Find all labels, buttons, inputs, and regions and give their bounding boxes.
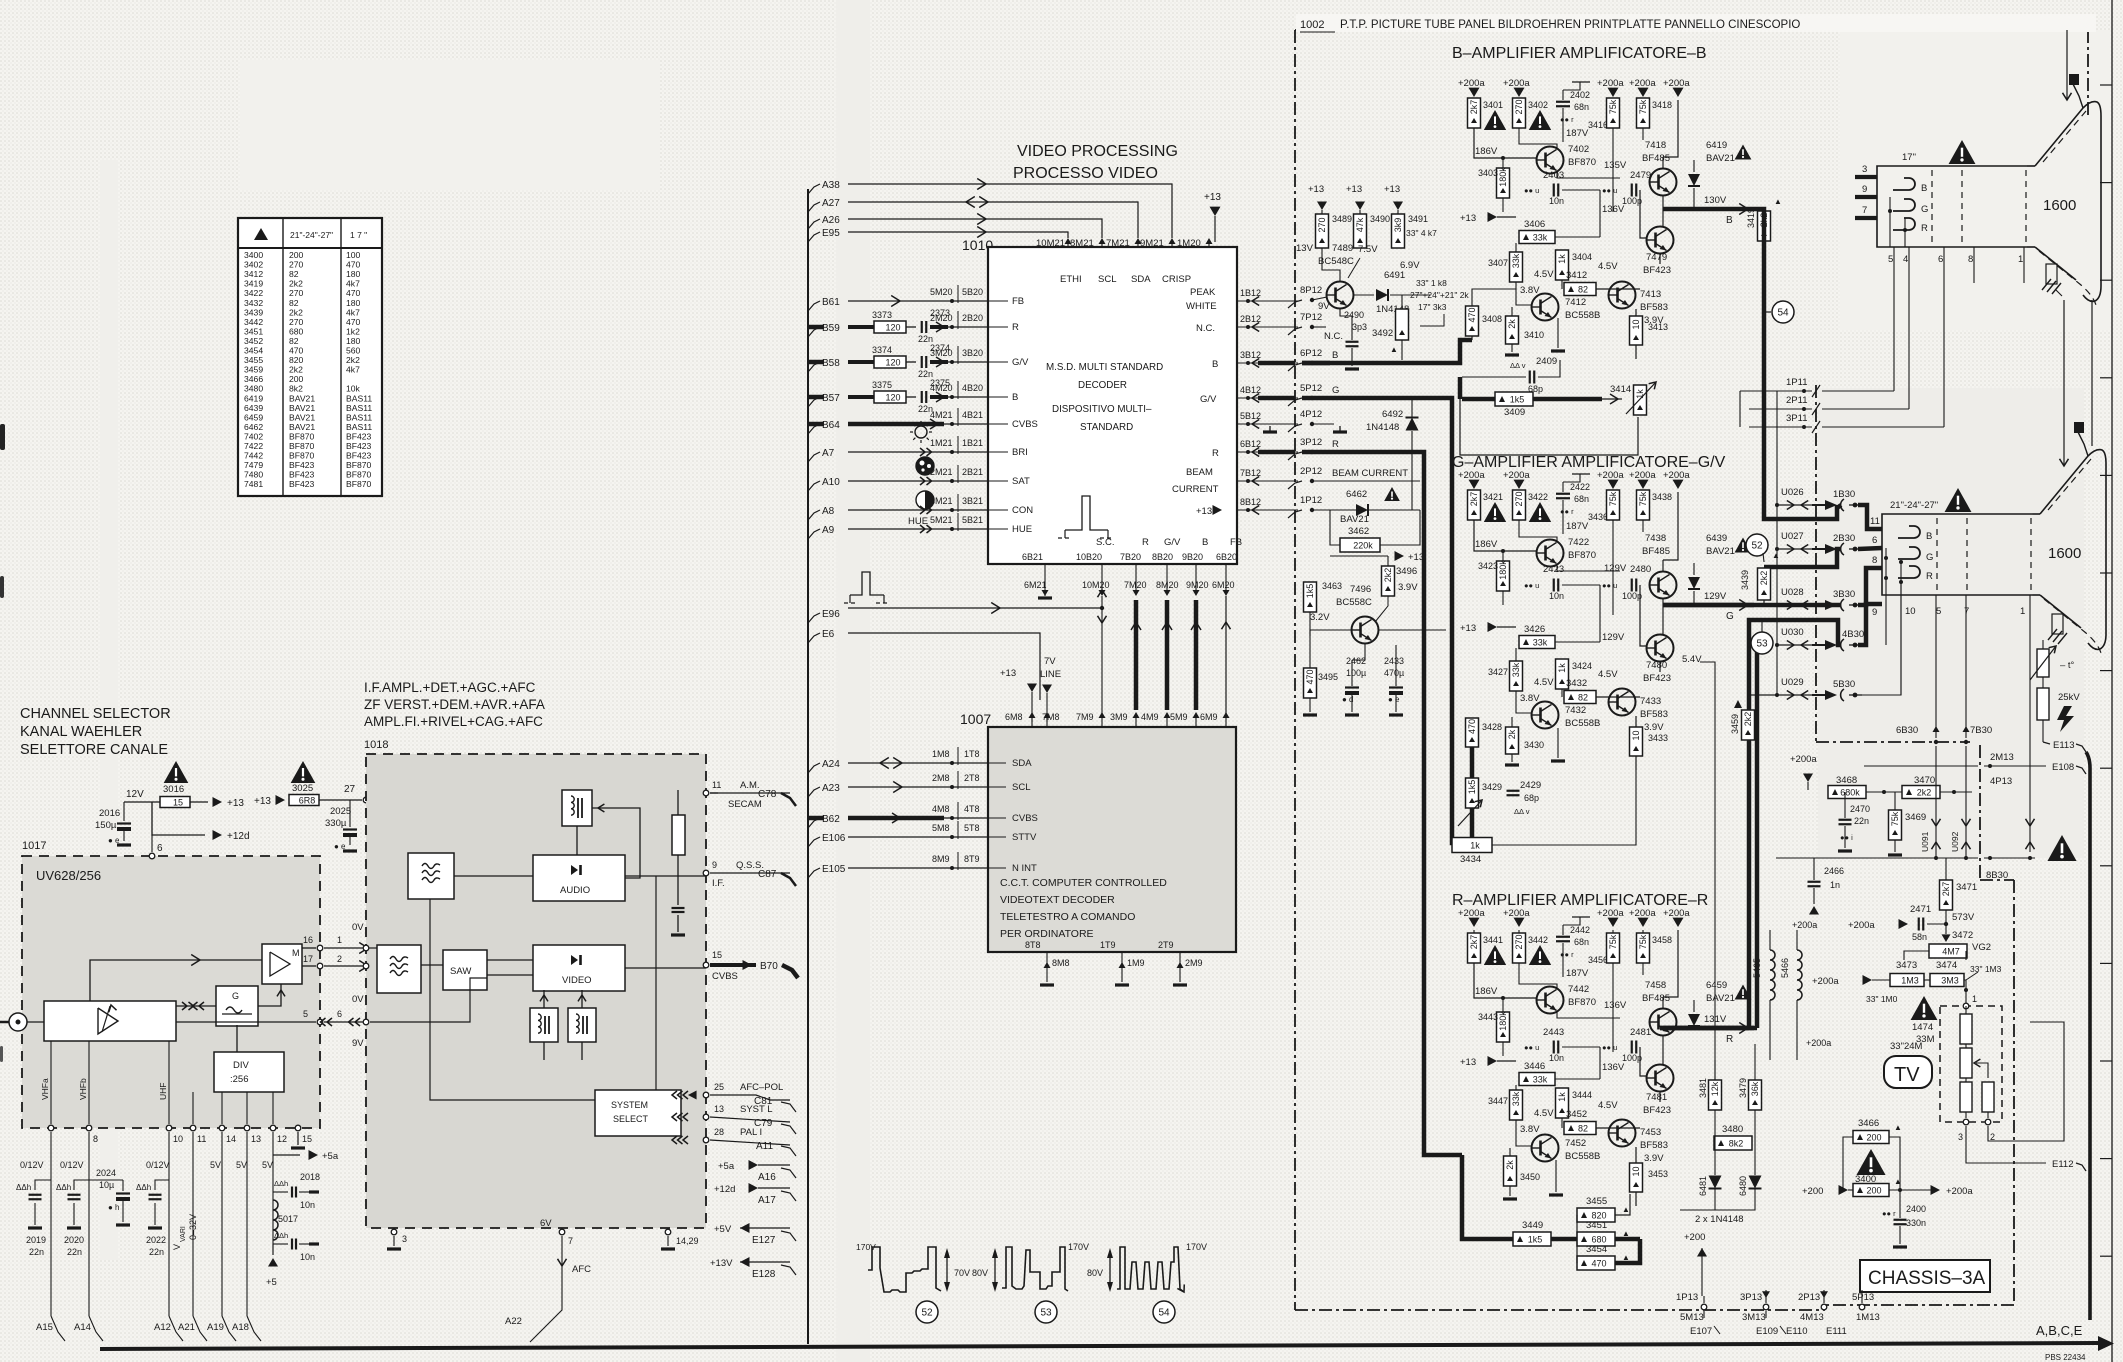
svg-text:LINE: LINE [1040, 669, 1061, 680]
stub A26 [808, 219, 820, 229]
svg-text:3k9: 3k9 [1393, 218, 1403, 233]
svg-text:BF870: BF870 [346, 460, 372, 470]
svg-text:▲: ▲ [1894, 1177, 1902, 1186]
svg-text:470: 470 [1591, 1258, 1606, 1268]
tube neck [1877, 166, 2027, 247]
R output to 4B30 vertical [1660, 1026, 1757, 1031]
tuner block [44, 1001, 176, 1041]
svg-text:HUE: HUE [1012, 524, 1032, 535]
B-amp q2-q3 wires [1662, 196, 1664, 227]
thick 3439 to 2B30 [1764, 549, 1841, 567]
svg-text:7412: 7412 [1565, 297, 1586, 308]
capacitor 2020 22n [74, 1180, 89, 1190]
svg-text:100p: 100p [1622, 1053, 1642, 1063]
svg-text:80V: 80V [1087, 1268, 1103, 1278]
thick bus G input down [1302, 398, 1462, 843]
svg-text:3451: 3451 [1586, 1220, 1607, 1231]
svg-text:7432: 7432 [1565, 705, 1586, 716]
waveform 54 level arrows [1109, 1253, 1111, 1287]
svg-text:G/V: G/V [1164, 537, 1181, 548]
svg-text:3454: 3454 [244, 346, 263, 356]
svg-text:SAT: SAT [1012, 476, 1030, 487]
svg-text:6M21: 6M21 [1024, 580, 1047, 590]
stub B64 [808, 424, 820, 434]
svg-text:13V: 13V [1296, 243, 1314, 254]
svg-text:7480: 7480 [244, 470, 263, 480]
svg-text:HUE: HUE [908, 516, 928, 527]
svg-text:BAV21: BAV21 [1706, 153, 1735, 164]
svg-text:+200: +200 [1684, 1232, 1705, 1243]
svg-text:3459: 3459 [1730, 714, 1740, 734]
svg-text:BF423: BF423 [289, 479, 315, 489]
svg-text:1007: 1007 [960, 711, 991, 727]
svg-text:1T8: 1T8 [964, 749, 980, 759]
svg-text:1: 1 [2018, 254, 2023, 265]
svg-text:3: 3 [402, 1234, 407, 1244]
svg-text:3423: 3423 [1478, 561, 1498, 571]
svg-text:2k7: 2k7 [1941, 882, 1951, 897]
warning triangle 3422 [1529, 502, 1551, 522]
capacitor 2402 68n [1562, 90, 1564, 100]
stub E95 [808, 232, 820, 242]
svg-text:BC558B: BC558B [1565, 1151, 1600, 1162]
svg-text:A15: A15 [36, 1322, 53, 1333]
svg-text:G: G [1332, 385, 1339, 396]
svg-text:V: V [172, 1244, 182, 1250]
wire audio out to pin 9 [625, 875, 706, 877]
svg-text:4M8: 4M8 [932, 804, 950, 814]
warning triangle 3400 [1856, 1149, 1885, 1175]
svg-text:3442: 3442 [1528, 935, 1548, 945]
svg-text:27"+24"+21" 2k: 27"+24"+21" 2k [1410, 290, 1469, 300]
transistor 7479 BF423 [1647, 227, 1674, 254]
svg-text:BF423: BF423 [346, 431, 372, 441]
svg-text:10n: 10n [1549, 591, 1564, 601]
tube panel inner dashdot [1815, 385, 1817, 742]
svg-text:3P12: 3P12 [1300, 437, 1322, 448]
svg-text:A23: A23 [822, 783, 840, 794]
svg-text:A8: A8 [822, 506, 835, 517]
svg-text:5: 5 [1888, 254, 1893, 265]
svg-text:2479: 2479 [1630, 170, 1651, 181]
svg-text:330µ: 330µ [325, 818, 347, 829]
svg-text:4.5V: 4.5V [1534, 1108, 1554, 1119]
svg-text:200: 200 [1866, 1132, 1881, 1142]
svg-text:75k: 75k [1638, 491, 1648, 506]
svg-text:2019: 2019 [26, 1235, 46, 1245]
resistor 75k a [1612, 490, 1614, 492]
svg-text:4B21: 4B21 [962, 410, 983, 420]
svg-text:5017: 5017 [278, 1214, 298, 1224]
wire 573V to 3472 [1945, 924, 1947, 934]
svg-text:+200a: +200a [1503, 908, 1530, 919]
svg-text:2480: 2480 [1630, 564, 1651, 575]
svg-text:ΔΔh: ΔΔh [136, 1183, 151, 1192]
warning triangle output G-amp [1735, 538, 1752, 553]
svg-text:3373: 3373 [872, 310, 892, 320]
svg-text:270: 270 [1317, 217, 1327, 232]
capacitor 2422 68n [1562, 482, 1564, 492]
svg-text:●● r: ●● r [1560, 507, 1574, 516]
resistor 3450 2k [1504, 1156, 1517, 1186]
131V R label wire [1680, 1044, 1715, 1080]
E112 wire [1966, 1126, 2046, 1163]
svg-text:3403: 3403 [1478, 168, 1498, 178]
svg-text:SDA: SDA [1012, 758, 1032, 769]
resistor 75k b [1642, 490, 1644, 492]
svg-text:2466: 2466 [1824, 866, 1844, 876]
svg-text:187V: 187V [1566, 521, 1589, 532]
+200a arrow right [1889, 1189, 1932, 1191]
svg-text:E108: E108 [2052, 762, 2074, 773]
1018 right pin 13 SYST L C79 [703, 1114, 709, 1120]
transistor 7418 BF485 [1650, 169, 1677, 196]
resistor 3434 1k [1452, 838, 1492, 853]
svg-text:G–AMPLIFIER AMPLIFICATORE–G/V: G–AMPLIFIER AMPLIFICATORE–G/V [1452, 454, 1726, 471]
svg-text:ΔΔ v: ΔΔ v [1514, 807, 1530, 816]
transistor 7480 BF423 [1647, 635, 1674, 662]
svg-text:3452: 3452 [244, 336, 263, 346]
thick bus B bottom loop [1533, 397, 1602, 402]
focus resistor 3 [1960, 1082, 1972, 1112]
resistor 3441 2k7 [1473, 930, 1475, 933]
svg-text:C78: C78 [758, 789, 777, 800]
svg-text:CHANNEL SELECTOR: CHANNEL SELECTOR [20, 706, 171, 722]
svg-text:0/12V: 0/12V [146, 1160, 170, 1170]
wire A38 to CRISP [848, 184, 1172, 238]
svg-text:2k2: 2k2 [289, 307, 303, 317]
svg-text:186V: 186V [1475, 146, 1498, 157]
svg-text:1018: 1018 [364, 739, 388, 751]
+200a below 2466 [1809, 906, 1819, 915]
svg-text:9B20: 9B20 [1182, 552, 1203, 562]
svg-text:●● u: ●● u [1524, 581, 1539, 590]
resistor 3447 33k vert [1510, 1090, 1523, 1120]
stub A9 [808, 529, 820, 539]
svg-text:VHFb: VHFb [78, 1078, 88, 1100]
warning triangle output R-amp [1735, 985, 1752, 1000]
svg-text:3451: 3451 [244, 326, 263, 336]
svg-text:10: 10 [173, 1134, 183, 1144]
transistor 7412 BC558B [1532, 294, 1559, 321]
svg-text:22n: 22n [918, 404, 933, 414]
svg-text:E109: E109 [1756, 1326, 1778, 1337]
svg-text:3496: 3496 [1396, 566, 1417, 577]
svg-text:3025: 3025 [292, 783, 313, 794]
svg-text:3430: 3430 [1524, 740, 1544, 750]
svg-text:180: 180 [346, 336, 361, 346]
svg-text:3.9V: 3.9V [1398, 582, 1418, 593]
svg-text:4B20: 4B20 [962, 383, 983, 393]
transistor 7481 BF423 [1647, 1065, 1674, 1092]
svg-text:8T8: 8T8 [1025, 940, 1041, 950]
svg-text:A18: A18 [232, 1322, 249, 1333]
svg-text:3375: 3375 [872, 380, 892, 390]
svg-text:1B30: 1B30 [1833, 489, 1855, 500]
svg-text:A21: A21 [178, 1322, 195, 1333]
svg-text:7433: 7433 [1640, 696, 1661, 707]
resistor 3427 33k vert [1510, 661, 1523, 691]
svg-text:+200a: +200a [1629, 470, 1656, 481]
svg-text:3470: 3470 [1914, 775, 1935, 786]
svg-text:2k: 2k [1507, 319, 1517, 329]
svg-text:5B21: 5B21 [962, 515, 983, 525]
svg-text:8B20: 8B20 [1152, 552, 1173, 562]
svg-text:BAV21: BAV21 [1706, 546, 1735, 557]
svg-text:1k: 1k [1557, 663, 1567, 673]
svg-text:8: 8 [93, 1134, 98, 1144]
svg-text:3016: 3016 [163, 784, 184, 795]
svg-text:A16: A16 [758, 1172, 776, 1183]
svg-text:A12: A12 [154, 1322, 171, 1333]
svg-text:3P11: 3P11 [1786, 413, 1807, 424]
svg-text:7489: 7489 [1332, 243, 1353, 254]
svg-text:25kV: 25kV [2058, 692, 2080, 703]
svg-text:A27: A27 [822, 198, 840, 209]
capacitor 2429 68p [1507, 790, 1520, 792]
svg-text:1T9: 1T9 [1100, 940, 1116, 950]
DIV 256 block [214, 1052, 284, 1092]
svg-text:11: 11 [1870, 516, 1880, 527]
svg-text:3454: 3454 [1586, 1244, 1607, 1255]
page edge vertical line right [2111, 0, 2113, 1362]
variable arrow 3429 [1458, 800, 1482, 826]
svg-text:●● u: ●● u [1602, 186, 1617, 195]
warning triangle 1474 [1911, 996, 1938, 1020]
svg-text:1: 1 [2020, 606, 2025, 617]
svg-text:0V: 0V [352, 922, 364, 933]
tube neck dashed verticals [1936, 518, 1938, 592]
svg-text:3p3: 3p3 [1352, 322, 1367, 332]
tube2 warning triangle [1945, 488, 1972, 512]
R-amp 75k wires to q2 [1613, 963, 1649, 1020]
wire 12V node [124, 801, 208, 803]
svg-text:7P12: 7P12 [1300, 312, 1322, 323]
resistor 3444 1k vert [1556, 1088, 1569, 1118]
resistor 3463 1k5 [1304, 582, 1317, 612]
svg-text:100p: 100p [1622, 591, 1642, 601]
svg-text:6419: 6419 [1706, 140, 1727, 151]
svg-text:3407: 3407 [1488, 258, 1508, 268]
svg-text:3408: 3408 [1482, 314, 1502, 324]
svg-text:3469: 3469 [1905, 812, 1926, 823]
svg-text:VHFa: VHFa [40, 1078, 50, 1100]
svg-text:52: 52 [1751, 541, 1763, 552]
transistor 7458 BF485 [1650, 1009, 1677, 1036]
svg-text:2k2: 2k2 [289, 279, 303, 289]
svg-text:8B30: 8B30 [1986, 870, 2008, 881]
svg-text:7479: 7479 [1646, 252, 1667, 263]
wire 5B30 row [1749, 694, 1777, 696]
svg-text:SCL: SCL [1012, 782, 1030, 793]
svg-text:3436: 3436 [1588, 512, 1608, 522]
svg-text:680k: 680k [1840, 787, 1860, 797]
svg-text:3: 3 [1862, 164, 1867, 175]
svg-text:82: 82 [289, 269, 299, 279]
svg-text:▲: ▲ [1622, 1205, 1630, 1214]
svg-text:270: 270 [289, 260, 304, 270]
svg-text:1k: 1k [1635, 389, 1645, 399]
resistor 3407 33k vert [1510, 252, 1523, 282]
tube1 heater pins 3 9 7 [1855, 175, 1877, 179]
resistor 3489 270 [1321, 210, 1323, 214]
svg-text:+200a: +200a [1597, 78, 1624, 89]
svg-text:3B21: 3B21 [962, 496, 983, 506]
svg-text:+13: +13 [1460, 1057, 1476, 1068]
resistor 25kV [2037, 688, 2049, 720]
svg-text:136V: 136V [1602, 1062, 1625, 1073]
svg-text:CURRENT: CURRENT [1172, 484, 1219, 495]
svg-text:+200a: +200a [1458, 78, 1485, 89]
svg-text:R: R [1212, 448, 1219, 459]
svg-text:+13: +13 [1460, 623, 1476, 634]
resistor 3452 82 [1564, 1122, 1596, 1135]
block 1002 dash-dot frame [1294, 30, 1296, 1310]
3466 bypass wires [1843, 1137, 1853, 1190]
svg-text:3455: 3455 [244, 355, 263, 365]
svg-text:3412: 3412 [244, 269, 263, 279]
svg-text:120: 120 [885, 322, 900, 332]
svg-text:3432: 3432 [244, 298, 263, 308]
oscillogram ref 54 circle [1764, 311, 1771, 313]
svg-text:3458: 3458 [1652, 935, 1672, 945]
svg-text:3402: 3402 [244, 260, 263, 270]
svg-text:+200a: +200a [1790, 754, 1817, 765]
svg-text:3444: 3444 [1572, 1090, 1592, 1100]
svg-text:470: 470 [1305, 669, 1315, 684]
svg-text:3.9V: 3.9V [1644, 722, 1664, 733]
svg-text:180k: 180k [1498, 560, 1508, 580]
resistor 75k a [1612, 98, 1614, 100]
svg-text:33" 1M3: 33" 1M3 [1970, 964, 2002, 974]
wire 1P11 riser [1739, 391, 1741, 427]
resistor 3409 1k5 [1495, 392, 1533, 406]
svg-text:2471: 2471 [1910, 904, 1931, 915]
svg-text:SYSTEM: SYSTEM [611, 1100, 648, 1110]
transistor 7422 BF870 [1537, 540, 1564, 567]
svg-text:SYST L: SYST L [740, 1104, 773, 1115]
svg-text:BF583: BF583 [1640, 302, 1668, 313]
ground q4 G [1511, 754, 1513, 762]
hook E113 [2043, 742, 2050, 744]
svg-text:82: 82 [289, 298, 299, 308]
svg-text:B: B [1332, 350, 1338, 361]
svg-text:5V: 5V [236, 1160, 247, 1170]
svg-text:6462: 6462 [1346, 489, 1367, 500]
svg-text:3428: 3428 [1482, 722, 1502, 732]
capacitor 2481 100p [1631, 1041, 1633, 1054]
svg-text:R: R [1012, 322, 1019, 333]
svg-text:6.9V: 6.9V [1400, 260, 1420, 271]
svg-text:U030: U030 [1781, 627, 1804, 638]
svg-text:6B30: 6B30 [1896, 725, 1918, 736]
svg-text:ΔΔh: ΔΔh [16, 1183, 31, 1192]
svg-text:0–32V: 0–32V [188, 1214, 198, 1240]
svg-text:B57: B57 [822, 393, 840, 404]
svg-text:●● r: ●● r [1882, 1209, 1896, 1218]
resistor 3453 10 vert [1630, 1163, 1643, 1192]
sync symbol left E96 [850, 572, 884, 595]
svg-text:8k2: 8k2 [1729, 1138, 1744, 1148]
diode 6439 BAV21 [1688, 577, 1700, 589]
svg-text:2T9: 2T9 [1158, 940, 1174, 950]
resistor 3430 2k [1506, 727, 1519, 754]
svg-text:FB: FB [1012, 296, 1024, 307]
svg-text:N.C.: N.C. [1196, 323, 1215, 334]
svg-text:8M8: 8M8 [1052, 958, 1070, 968]
svg-text:2k2: 2k2 [1917, 787, 1932, 797]
warning triangle 3401 [1484, 110, 1506, 130]
svg-text:6V: 6V [540, 1218, 552, 1229]
svg-text:9V: 9V [352, 1038, 364, 1049]
svg-text:1P11: 1P11 [1786, 377, 1807, 388]
1018 left pins [363, 945, 369, 951]
svg-text:7453: 7453 [1640, 1127, 1661, 1138]
wire A27 to SDA [848, 202, 1138, 238]
svg-text:3427: 3427 [1488, 667, 1508, 677]
svg-text:33k: 33k [1533, 637, 1548, 647]
svg-text:11: 11 [712, 780, 721, 790]
svg-text:470: 470 [346, 260, 361, 270]
svg-text:CVBS: CVBS [1012, 813, 1038, 824]
svg-text:6: 6 [1872, 535, 1877, 546]
svg-text:+200a: +200a [1663, 908, 1690, 919]
svg-text:4.5V: 4.5V [1598, 669, 1618, 680]
tube anode lead [2078, 432, 2088, 456]
resistor 3443 180k [1497, 1012, 1510, 1042]
waveform 53 level arrows [994, 1253, 996, 1287]
svg-text:AFC–POL: AFC–POL [740, 1082, 783, 1093]
arrow +5a [273, 1154, 300, 1156]
G-amp q4 q5 wires [1561, 689, 1563, 697]
1002 title [1296, 14, 2096, 32]
ground q4 R [1509, 1186, 1511, 1196]
svg-text:1P12: 1P12 [1300, 495, 1322, 506]
svg-text:2402: 2402 [1570, 90, 1590, 100]
icon contrast [916, 491, 934, 509]
svg-text:1M21: 1M21 [930, 438, 953, 448]
svg-text:7: 7 [568, 1236, 573, 1246]
svg-text:2k2: 2k2 [346, 355, 360, 365]
svg-text:6: 6 [157, 843, 163, 854]
svg-text:5.4V: 5.4V [1682, 654, 1702, 665]
svg-text:120: 120 [885, 392, 900, 402]
R-amp output bus [1663, 1026, 1754, 1031]
svg-text:2B21: 2B21 [962, 467, 983, 477]
svg-text:E113: E113 [2053, 740, 2074, 751]
svg-text:U092: U092 [1950, 831, 1960, 852]
pin 8B30 [1966, 849, 1978, 858]
icon saturation [916, 457, 934, 475]
svg-text:80V: 80V [972, 1268, 988, 1278]
svg-text:SDA: SDA [1131, 274, 1151, 285]
svg-text:2M9: 2M9 [1185, 958, 1203, 968]
stub E96 [808, 613, 820, 623]
svg-text:75k: 75k [1608, 99, 1618, 114]
svg-text:0V: 0V [352, 994, 364, 1005]
svg-text:BF423: BF423 [346, 441, 372, 451]
svg-text:AMPL.FI.+RIVEL+CAG.+AFC: AMPL.FI.+RIVEL+CAG.+AFC [364, 714, 543, 729]
svg-text:5M21: 5M21 [930, 515, 953, 525]
svg-text:33k: 33k [1533, 1074, 1548, 1084]
svg-text:3489: 3489 [1332, 214, 1352, 224]
svg-text:0/12V: 0/12V [20, 1160, 44, 1170]
svg-text:DIV: DIV [233, 1060, 250, 1071]
resistor 3442 270 [1518, 930, 1520, 933]
svg-text:+200a: +200a [1629, 908, 1656, 919]
svg-text:7422: 7422 [244, 441, 263, 451]
thick R bus to 4B30 [1660, 1026, 1749, 1031]
